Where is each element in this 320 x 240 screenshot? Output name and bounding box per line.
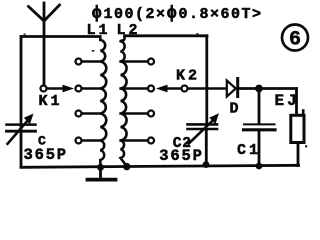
svg-text:6: 6 <box>289 29 301 52</box>
svg-text:K1: K1 <box>39 93 63 110</box>
svg-text:C1: C1 <box>237 142 261 159</box>
svg-text:L2: L2 <box>117 22 141 39</box>
svg-text:EJ: EJ <box>275 92 300 110</box>
svg-text:365P: 365P <box>159 147 203 165</box>
svg-text:K2: K2 <box>176 68 200 85</box>
svg-text:L1: L1 <box>87 22 111 39</box>
svg-text:365P: 365P <box>24 146 68 164</box>
svg-text:D: D <box>230 100 242 117</box>
